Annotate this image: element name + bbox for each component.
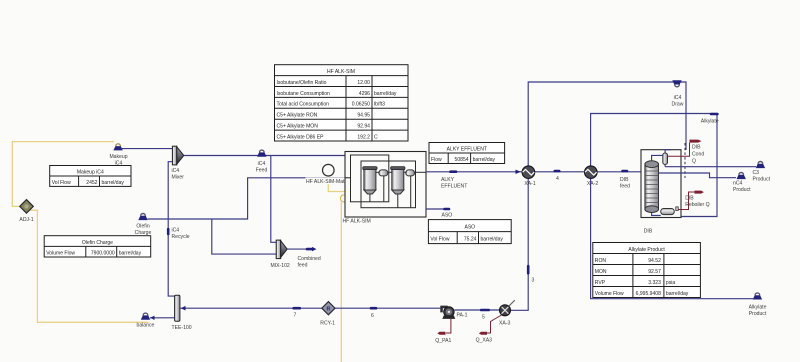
stream Olefin Charge (138, 214, 147, 221)
wire yellow spreadsheet down (340, 202, 342, 362)
svg-text:ALKY EFFLUENT: ALKY EFFLUENT (447, 147, 487, 153)
svg-text:50854: 50854 (455, 157, 469, 163)
svg-text:HF ALK-SIM: HF ALK-SIM (343, 219, 371, 225)
svg-text:nC4: nC4 (733, 180, 743, 186)
drum 1 (379, 170, 388, 176)
recycle RCY-1 (322, 302, 335, 315)
svg-text:Reboiler Q: Reboiler Q (685, 202, 709, 208)
wire branch to MIX-102 lower inlet (212, 219, 276, 254)
wire column internals (652, 150, 677, 216)
svg-text:C5+ Alkylate MON: C5+ Alkylate MON (277, 124, 319, 130)
table ASO (428, 220, 511, 244)
table Makeup iC4 (50, 166, 131, 187)
wire iC4 Feed from mixer to HF ALK-SIM (184, 155, 345, 157)
svg-text:RCY-1: RCY-1 (320, 321, 335, 327)
svg-text:Charge: Charge (135, 230, 152, 236)
arrowhead into XA-1 (516, 170, 521, 174)
svg-text:Olefin: Olefin (136, 224, 149, 230)
drum 2 (406, 170, 415, 176)
wire Olefin Charge to junction (148, 178, 346, 219)
svg-text:MIX-102: MIX-102 (271, 263, 290, 269)
svg-text:DIB: DIB (685, 196, 694, 202)
svg-text:Vol Flow: Vol Flow (430, 237, 449, 243)
stream dash 3 (527, 266, 530, 273)
svg-text:PA-1: PA-1 (457, 313, 468, 319)
column block DIB (641, 150, 681, 218)
svg-text:Isobutane/Olefin Ratio: Isobutane/Olefin Ratio (277, 80, 327, 86)
svg-text:DIB: DIB (620, 177, 629, 183)
svg-text:0.06250: 0.06250 (352, 102, 370, 108)
stream dash iC4 Recycle (167, 229, 170, 234)
svg-text:Q: Q (692, 159, 696, 165)
energy wire DIB Cond Q (668, 143, 690, 157)
wire yellow ADJ-1 to balance (30, 210, 149, 322)
tee TEE-100 (175, 295, 180, 321)
svg-text:75.24: 75.24 (464, 237, 477, 243)
node yellow circle (340, 195, 347, 202)
svg-text:Mixer: Mixer (172, 175, 185, 181)
table Olefin Charge (44, 236, 151, 257)
stream dash 4 (555, 170, 559, 173)
wire yellow ADJ-1 to Makeup iC4 (12, 142, 114, 207)
svg-text:Olefin Charge: Olefin Charge (82, 240, 113, 246)
stream dash Alkylate (711, 113, 717, 116)
svg-text:iC4: iC4 (258, 161, 266, 167)
svg-text:ASO: ASO (464, 225, 475, 231)
mixer MIX-102 (276, 240, 287, 259)
svg-text:XA-1: XA-1 (524, 181, 535, 187)
arrowhead into TEE-100 (181, 306, 186, 311)
svg-text:MON: MON (595, 269, 607, 275)
svg-text:92.57: 92.57 (648, 269, 661, 275)
table HF ALK-SIM (275, 65, 409, 141)
svg-text:Draw: Draw (672, 102, 684, 108)
energy wire Q_XA3 (487, 315, 502, 333)
wire PA-1 to XA-3 (455, 309, 501, 311)
svg-text:feed: feed (298, 263, 308, 269)
heat exchanger XA-2 (585, 166, 598, 179)
adjust ADJ-1 (20, 200, 34, 214)
svg-text:feed: feed (620, 184, 630, 190)
stream C3 Product (756, 162, 765, 169)
stream balance (141, 313, 150, 320)
svg-text:Volume Flow: Volume Flow (46, 250, 75, 256)
vessel reactor 1 (363, 167, 377, 194)
svg-text:Q_XA3: Q_XA3 (476, 338, 493, 344)
svg-text:barrel/day: barrel/day (666, 291, 689, 297)
svg-text:7900.0000: 7900.0000 (91, 250, 115, 256)
stream dash Combined feed (307, 248, 313, 251)
svg-text:psia: psia (666, 280, 675, 286)
wire Alkylate from DIB through XA-2 to product (591, 114, 753, 299)
svg-text:Alkylate: Alkylate (749, 305, 767, 311)
stream iC4 Draw (672, 80, 681, 87)
energy wire Q_PA1 (446, 319, 451, 333)
air cooler XA-3 (500, 300, 515, 316)
svg-text:DIB: DIB (692, 145, 701, 151)
svg-text:Alkylate: Alkylate (701, 119, 719, 125)
svg-text:Recycle: Recycle (172, 234, 190, 240)
svg-text:Cond: Cond (692, 152, 704, 158)
table Alkylate Product (593, 243, 701, 298)
svg-text:Total acid Consumption: Total acid Consumption (277, 102, 330, 108)
svg-text:barrel/day: barrel/day (481, 237, 504, 243)
svg-text:7: 7 (294, 313, 297, 319)
stream dash 5 (481, 309, 489, 312)
stream dash DIB feed (623, 170, 628, 173)
svg-text:ALKY: ALKY (441, 177, 455, 183)
energy stream DIB Reboiler Q (695, 191, 704, 194)
energy stream Q_PA1 (437, 332, 445, 335)
svg-text:Product: Product (733, 187, 751, 193)
condenser DIB (663, 153, 668, 164)
svg-text:5: 5 (482, 315, 485, 321)
svg-text:Makeup: Makeup (109, 154, 127, 160)
svg-text:iC4: iC4 (172, 168, 180, 174)
svg-text:6: 6 (371, 313, 374, 319)
wire iC4 Draw loop from column to XA-1 and down to XA-3 (510, 82, 687, 310)
svg-text:C: C (374, 134, 378, 140)
energy stream Q_XA3 (479, 332, 487, 335)
stream dash ASO (445, 208, 450, 211)
reactor block HF ALK-SIM (345, 152, 426, 218)
svg-text:lb/ft3: lb/ft3 (374, 102, 385, 108)
svg-text:TEE-100: TEE-100 (172, 325, 192, 331)
stream nC4 Product (737, 173, 746, 180)
svg-text:Feed: Feed (256, 168, 268, 174)
energy wire DIB Reboiler Q (678, 192, 695, 210)
svg-text:94.95: 94.95 (357, 113, 370, 119)
svg-text:HF ALK-SIM: HF ALK-SIM (327, 69, 355, 75)
wire bottom main line 7 to PA-1 (180, 307, 441, 309)
reboiler DIB (661, 207, 679, 215)
svg-text:Vol Flow: Vol Flow (52, 180, 71, 186)
svg-text:barrel/day: barrel/day (102, 180, 125, 186)
svg-text:Isobutane Consumption: Isobutane Consumption (277, 91, 331, 97)
svg-text:balance: balance (137, 323, 155, 329)
heat exchanger XA-1 (522, 166, 535, 179)
svg-text:3: 3 (532, 278, 535, 284)
svg-text:barrel/day: barrel/day (473, 157, 496, 163)
wire nC4 Product from column (659, 173, 737, 178)
tower DIB (645, 161, 659, 213)
stream Makeup iC4 (113, 144, 122, 151)
svg-text:Combined: Combined (298, 256, 321, 262)
spreadsheet HF ALK-SIM-Mater circle (323, 164, 335, 176)
svg-text:92.94: 92.94 (357, 124, 370, 130)
wire C3 Product from condenser (665, 166, 756, 168)
stream Alkylate Product (753, 293, 762, 300)
svg-text:DIB: DIB (644, 229, 653, 235)
svg-text:XA-2: XA-2 (587, 181, 598, 187)
svg-text:ASO: ASO (442, 213, 453, 219)
svg-text:Product: Product (749, 311, 767, 317)
wire ASO from reactor (426, 208, 444, 210)
svg-text:C3: C3 (753, 170, 760, 176)
pump PA-1 (440, 306, 455, 319)
svg-text:2452: 2452 (86, 180, 97, 186)
vessel reactor 2 (391, 167, 405, 194)
wire yellow spreadsheet to reactor (328, 176, 348, 191)
svg-text:iC4: iC4 (172, 228, 180, 234)
svg-text:6,995.9408: 6,995.9408 (636, 291, 661, 297)
svg-text:C5+ Alkylate D86 EP: C5+ Alkylate D86 EP (277, 134, 325, 140)
wire balance from TEE-100 (150, 317, 175, 319)
wire Combined feed (287, 248, 306, 250)
svg-text:C5+ Alkylate RON: C5+ Alkylate RON (277, 113, 318, 119)
stream dash 6 (371, 307, 376, 310)
svg-text:XA-3: XA-3 (499, 321, 510, 327)
table ALKY EFFLUENT (429, 143, 505, 164)
svg-text:Product: Product (753, 177, 771, 183)
svg-text:Alkylate Product: Alkylate Product (628, 247, 665, 253)
svg-text:ADJ-1: ADJ-1 (19, 217, 33, 223)
svg-text:barrel/day: barrel/day (119, 250, 142, 256)
svg-text:3.323: 3.323 (648, 280, 661, 286)
svg-text:94.52: 94.52 (648, 258, 661, 264)
wire iC4 Recycle from iC4 Mixer to TEE-100 (168, 162, 174, 296)
svg-text:RON: RON (595, 258, 607, 264)
wire Makeup iC4 to iC4 Mixer (122, 148, 172, 150)
wire branch down to MIX-102 upper inlet (271, 156, 276, 243)
svg-text:iC4: iC4 (674, 95, 682, 101)
svg-text:Makeup iC4: Makeup iC4 (77, 170, 104, 176)
svg-text:4296: 4296 (359, 91, 370, 97)
svg-text:192.2: 192.2 (357, 134, 370, 140)
svg-text:Q_PA1: Q_PA1 (435, 338, 451, 344)
mixer iC4 Mixer (172, 146, 183, 165)
svg-text:HF ALK-SIM-Mater: HF ALK-SIM-Mater (306, 179, 349, 185)
svg-text:4: 4 (556, 176, 559, 182)
svg-text:RVP: RVP (595, 280, 606, 286)
energy dashed line (684, 143, 686, 178)
stream dash ALKY EFFLUENT (451, 170, 457, 173)
svg-text:Flow: Flow (431, 157, 442, 163)
arrowhead balance (150, 316, 154, 320)
svg-text:Volume Flow: Volume Flow (595, 291, 624, 297)
svg-text:EFFLUENT: EFFLUENT (441, 184, 467, 190)
wire ALKY EFFLUENT to XA-1 XA-2 DIB (426, 171, 646, 173)
energy stream DIB Cond Q (690, 140, 702, 143)
svg-text:12.00: 12.00 (357, 80, 370, 86)
svg-text:R: R (326, 306, 330, 312)
stream dash 7 (294, 307, 300, 310)
label HF ALK-SIM-Mater (306, 178, 350, 186)
stream iC4 Feed (257, 150, 266, 157)
svg-text:barrel/day: barrel/day (374, 91, 397, 97)
